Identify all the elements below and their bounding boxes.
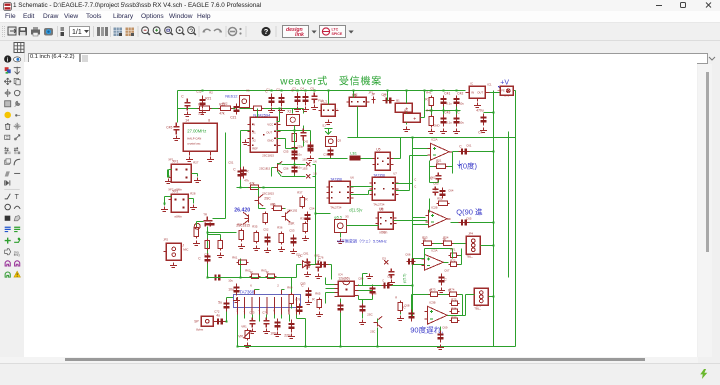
wire y158 row bbox=[318, 157, 375, 159]
svg-text:C67: C67 bbox=[444, 268, 450, 272]
ground bbox=[186, 156, 193, 161]
resistor R36 bbox=[279, 231, 283, 244]
wire rail B vertical bbox=[507, 131, 509, 277]
label d15v bbox=[349, 207, 363, 212]
svg-text:C: C bbox=[181, 94, 184, 98]
svg-text:+V: +V bbox=[500, 79, 509, 86]
label C52 bbox=[263, 227, 269, 231]
svg-text:C69: C69 bbox=[442, 325, 448, 329]
ground bbox=[193, 240, 200, 245]
svg-text:JP5: JP5 bbox=[476, 303, 481, 307]
svg-text:GND: GND bbox=[433, 123, 439, 127]
svg-text:R52: R52 bbox=[437, 196, 443, 200]
label C84 bbox=[358, 276, 364, 280]
wire vert x240 bbox=[240, 130, 249, 187]
label R33 bbox=[270, 202, 276, 206]
capacitor C84 bbox=[369, 285, 375, 295]
resistor R65 bbox=[312, 297, 321, 309]
ground bbox=[388, 279, 395, 284]
transistor Q4 bbox=[254, 194, 271, 206]
svg-text:0.1u: 0.1u bbox=[446, 120, 452, 124]
wire rail C vertical bbox=[514, 93, 516, 346]
ground bbox=[253, 245, 260, 250]
wire rail A vertical bbox=[492, 90, 494, 346]
svg-text:5u: 5u bbox=[218, 300, 222, 304]
svg-text:C: C bbox=[382, 278, 384, 282]
label C85 bbox=[387, 274, 393, 278]
wire opamp1 out bbox=[452, 150, 494, 152]
label 1 bbox=[336, 107, 338, 111]
svg-text:MIC: MIC bbox=[183, 247, 188, 251]
ground bbox=[233, 297, 240, 302]
label IC2B bbox=[431, 205, 437, 209]
wire u14 bbox=[411, 294, 465, 315]
wire xf2 bbox=[188, 198, 193, 203]
label SJ bbox=[322, 123, 326, 127]
svg-text:TA7358: TA7358 bbox=[373, 173, 385, 177]
label B2 bbox=[404, 108, 408, 112]
capacitor C55 bbox=[291, 144, 303, 154]
svg-text:2SC: 2SC bbox=[370, 329, 375, 333]
label U6 bbox=[350, 175, 354, 179]
crystal Q1 bbox=[239, 95, 249, 108]
capacitor C62 bbox=[430, 172, 441, 182]
svg-text:OUT: OUT bbox=[477, 90, 483, 94]
wire opamp1 in bbox=[409, 148, 427, 190]
ground bbox=[278, 246, 285, 251]
svg-text:IC2A: IC2A bbox=[431, 137, 437, 141]
ground bbox=[438, 287, 445, 292]
ground bbox=[161, 206, 168, 211]
wire d2 bbox=[239, 264, 331, 279]
svg-text:TA7358: TA7358 bbox=[330, 177, 342, 181]
filter FL1 bbox=[318, 99, 338, 116]
svg-text:IN: IN bbox=[252, 122, 255, 126]
label 1SS bbox=[302, 166, 307, 170]
label C12 bbox=[196, 89, 202, 93]
svg-text:10u: 10u bbox=[297, 152, 302, 156]
wire dip8 out bbox=[358, 284, 413, 286]
resistor R39 bbox=[240, 166, 249, 178]
supply connector J1 bbox=[497, 86, 513, 95]
svg-text:TBL_: TBL_ bbox=[466, 254, 473, 258]
capacitor C73 bbox=[263, 317, 269, 327]
resistor R71 bbox=[448, 253, 458, 257]
svg-text:R37: R37 bbox=[297, 190, 303, 194]
resistor R35 bbox=[254, 230, 258, 243]
op-amp U13 bbox=[421, 254, 446, 270]
svg-text:NE612: NE612 bbox=[225, 93, 238, 98]
svg-text:JP3: JP3 bbox=[504, 93, 509, 97]
svg-text:C53: C53 bbox=[289, 228, 295, 232]
ground bbox=[199, 109, 206, 114]
capacitor C81 bbox=[300, 253, 310, 269]
svg-text:C38: C38 bbox=[381, 92, 387, 96]
wire to row bbox=[329, 157, 331, 158]
svg-text:C79: C79 bbox=[295, 297, 301, 301]
svg-text:C76: C76 bbox=[318, 255, 324, 259]
node row bbox=[430, 89, 457, 111]
label IC2A bbox=[431, 137, 437, 141]
svg-text:R74: R74 bbox=[449, 287, 455, 291]
ground bbox=[474, 102, 481, 107]
svg-text:R66: R66 bbox=[371, 291, 377, 295]
svg-text:R33: R33 bbox=[270, 202, 276, 206]
jumper circle bbox=[194, 223, 200, 229]
svg-text:OUT: OUT bbox=[266, 130, 272, 134]
svg-text:U7: U7 bbox=[393, 171, 397, 175]
inductor L1 bbox=[349, 150, 360, 160]
label 6 bbox=[250, 283, 252, 287]
label C82 bbox=[314, 253, 320, 257]
label C76 bbox=[318, 255, 324, 259]
svg-text:10u: 10u bbox=[228, 287, 234, 291]
svg-text:C61: C61 bbox=[466, 143, 472, 147]
svg-text:8ohm: 8ohm bbox=[196, 327, 204, 331]
svg-text:X1: X1 bbox=[252, 130, 256, 134]
label C54 bbox=[309, 206, 315, 210]
svg-text:R75: R75 bbox=[451, 297, 457, 301]
label R42 bbox=[426, 108, 432, 112]
label C81 bbox=[303, 251, 309, 255]
label IC3A bbox=[431, 248, 437, 252]
svg-text:R54: R54 bbox=[443, 235, 449, 239]
svg-text:C73: C73 bbox=[249, 310, 255, 314]
label C55 bbox=[283, 149, 289, 153]
svg-text:HALF-CAN: HALF-CAN bbox=[187, 136, 201, 140]
resistor R63 bbox=[265, 270, 276, 278]
capacitor C92 bbox=[403, 305, 414, 321]
svg-text:L$1: L$1 bbox=[350, 150, 357, 155]
capacitor C72 bbox=[249, 317, 255, 327]
wire x412 vert bbox=[411, 136, 413, 190]
svg-text:C21: C21 bbox=[230, 115, 236, 119]
svg-text:47k: 47k bbox=[219, 111, 225, 115]
label R34 bbox=[237, 222, 243, 226]
wire u13 fb bbox=[424, 248, 452, 258]
op-amp IC U2 NJM2594 bbox=[247, 112, 280, 152]
wire dip8 fb bbox=[358, 284, 372, 299]
wire y232 bbox=[207, 231, 236, 233]
label C61 bbox=[466, 143, 472, 147]
label JP3 bbox=[504, 93, 509, 97]
svg-text:7: 7 bbox=[281, 308, 283, 312]
svg-text:6: 6 bbox=[250, 283, 252, 287]
label C68 bbox=[404, 303, 410, 307]
svg-text:R72: R72 bbox=[450, 258, 456, 262]
ground njm pin3 bbox=[242, 139, 249, 144]
label JP5 bbox=[476, 303, 481, 307]
svg-text:IC4: IC4 bbox=[338, 272, 343, 276]
label VR1 bbox=[241, 324, 247, 328]
label IC3B bbox=[429, 300, 435, 304]
svg-text:TR: TR bbox=[203, 212, 207, 216]
ground bbox=[217, 252, 224, 257]
label 1SS bbox=[302, 157, 307, 161]
wire NJM right bbox=[276, 108, 285, 148]
svg-text:+: + bbox=[413, 116, 416, 122]
wire loop rail bbox=[347, 136, 515, 138]
label C71 bbox=[204, 252, 210, 256]
capacitor C76 bbox=[317, 257, 328, 267]
svg-text:PE: PE bbox=[501, 88, 505, 92]
svg-text:X2: X2 bbox=[252, 138, 256, 142]
wire mixer out bbox=[393, 137, 400, 158]
capacitor C57 bbox=[291, 164, 302, 174]
svg-text:U$2: U$2 bbox=[352, 92, 358, 96]
svg-text:xt9Mn: xt9Mn bbox=[174, 214, 182, 218]
capacitor C34 bbox=[302, 92, 308, 105]
wire caps bbox=[431, 106, 456, 114]
wire battery bbox=[405, 89, 407, 124]
capacitor C21 bbox=[230, 103, 239, 119]
capacitor C86 bbox=[381, 278, 391, 288]
op-amp U12 DIP8 bbox=[334, 276, 358, 296]
label C2 bbox=[276, 87, 280, 91]
label U$2 bbox=[352, 92, 358, 96]
svg-text:1SS: 1SS bbox=[302, 166, 307, 170]
mixer U6 TA7358 bbox=[326, 177, 353, 209]
wire q in bbox=[412, 190, 428, 227]
capacitor C44 bbox=[181, 94, 190, 110]
capacitor C45 bbox=[166, 122, 179, 134]
label phase bbox=[402, 274, 406, 284]
svg-text:C52: C52 bbox=[263, 227, 269, 231]
audio amp U11 TA7368 bbox=[233, 289, 300, 314]
svg-text:C54: C54 bbox=[309, 206, 315, 210]
ground bbox=[316, 311, 323, 316]
transistor Q6 bbox=[281, 210, 295, 225]
svg-text:X1: X1 bbox=[246, 88, 250, 92]
svg-text:14: 14 bbox=[185, 118, 189, 122]
label R71 bbox=[450, 247, 456, 251]
svg-text:?: ? bbox=[264, 27, 269, 36]
label C5 bbox=[310, 86, 314, 90]
ground bbox=[278, 107, 285, 112]
capacitor C33 bbox=[291, 88, 300, 105]
crystal Q2 bbox=[286, 109, 299, 125]
svg-text:C65: C65 bbox=[466, 216, 472, 220]
crystal Q8 bbox=[334, 215, 346, 232]
svg-text:R: R bbox=[425, 97, 428, 101]
capacitor C61 bbox=[458, 144, 469, 154]
label C53 bbox=[289, 228, 295, 232]
capacitor C79 bbox=[296, 303, 302, 314]
label C4n bbox=[478, 130, 482, 134]
svg-text:C43: C43 bbox=[444, 110, 450, 114]
svg-text:U8: U8 bbox=[379, 206, 383, 210]
capacitor C71 bbox=[213, 313, 226, 324]
label GND bbox=[433, 123, 439, 127]
capacitor C31 bbox=[265, 89, 274, 106]
wire fb2 bbox=[428, 198, 430, 212]
svg-text:C: C bbox=[414, 184, 416, 188]
svg-text:47k: 47k bbox=[249, 181, 255, 185]
node bbox=[270, 89, 315, 91]
ground bbox=[307, 155, 314, 160]
label R37 bbox=[297, 190, 303, 194]
svg-text:0.1u: 0.1u bbox=[446, 101, 452, 105]
ground bbox=[311, 104, 318, 109]
label C67 bbox=[444, 268, 450, 272]
wire conn4 bbox=[465, 294, 494, 297]
svg-text:IC3B: IC3B bbox=[429, 300, 435, 304]
capacitor C32 bbox=[278, 93, 284, 106]
capacitor C46 bbox=[453, 110, 460, 126]
crystal filter XF2 bbox=[168, 189, 188, 212]
wire opamp2 out bbox=[450, 221, 494, 223]
ground bbox=[190, 204, 197, 209]
svg-text:C62: C62 bbox=[430, 175, 436, 179]
mixer U7 TA7358 bbox=[369, 173, 398, 206]
capacitor C47 470u bbox=[476, 108, 486, 125]
svg-text:R77: R77 bbox=[451, 315, 457, 319]
svg-text:C: C bbox=[457, 110, 460, 114]
svg-text:C81: C81 bbox=[303, 251, 309, 255]
svg-text:I(0度): I(0度) bbox=[458, 160, 477, 170]
label R28 bbox=[190, 191, 196, 195]
wire y108 row bbox=[177, 107, 303, 113]
svg-text:C72: C72 bbox=[214, 309, 220, 313]
svg-text:R61: R61 bbox=[232, 255, 238, 259]
svg-text:XF2: XF2 bbox=[168, 187, 174, 191]
wire q9 bbox=[376, 312, 404, 347]
resistor R32 bbox=[263, 211, 267, 224]
resistor R30 bbox=[218, 238, 222, 250]
wire osc bbox=[258, 187, 285, 208]
svg-text:VR: VR bbox=[238, 334, 243, 338]
label C3 bbox=[292, 86, 296, 90]
label R61 bbox=[232, 255, 238, 259]
svg-text:2SC1815: 2SC1815 bbox=[259, 166, 270, 170]
label 10u bbox=[459, 101, 464, 105]
resistor R72 bbox=[448, 262, 458, 266]
ground bbox=[453, 128, 460, 133]
label D3 bbox=[382, 256, 386, 260]
svg-text:R21: R21 bbox=[205, 96, 211, 100]
capacitor C82 bbox=[315, 260, 321, 271]
label R35 bbox=[252, 224, 258, 228]
label NE612 bbox=[225, 93, 238, 98]
svg-text:R38: R38 bbox=[300, 216, 306, 220]
svg-text:8: 8 bbox=[288, 308, 290, 312]
wire mixer link bbox=[350, 186, 372, 194]
resistor R77 bbox=[449, 318, 459, 322]
resistor R61 bbox=[236, 260, 248, 264]
svg-text:R51: R51 bbox=[436, 158, 442, 162]
label C4 bbox=[300, 86, 304, 90]
label 2SC bbox=[367, 312, 372, 316]
svg-text:X5: X5 bbox=[345, 214, 349, 218]
svg-text:470u: 470u bbox=[476, 108, 484, 112]
battery B2 bbox=[403, 113, 420, 122]
resistor R29 bbox=[194, 225, 198, 238]
svg-text:R34: R34 bbox=[237, 222, 243, 226]
wire NJM out bbox=[276, 130, 310, 143]
label X1 bbox=[246, 88, 250, 92]
svg-text:C63: C63 bbox=[433, 181, 439, 185]
ground bbox=[274, 331, 281, 336]
ground bbox=[165, 178, 172, 183]
svg-text:Q3: Q3 bbox=[337, 138, 341, 142]
potentiometer VR1 bbox=[238, 328, 251, 340]
ground bbox=[288, 333, 295, 338]
capacitor C42b bbox=[303, 139, 313, 153]
svg-text:C5: C5 bbox=[310, 86, 314, 90]
wire q7 bbox=[271, 163, 281, 176]
wire xf1 bbox=[191, 173, 197, 176]
label JP4 bbox=[468, 231, 473, 235]
resistor R30b bbox=[205, 238, 209, 250]
svg-text:erc): erc) bbox=[14, 253, 20, 257]
label XF1 bbox=[168, 157, 174, 161]
resistor R41 bbox=[425, 95, 433, 107]
ground bbox=[304, 271, 311, 276]
svg-text:T: T bbox=[15, 194, 20, 201]
svg-text:R: R bbox=[246, 169, 249, 173]
label C65 bbox=[466, 216, 472, 220]
label xf1b bbox=[174, 187, 182, 191]
svg-text:6: 6 bbox=[273, 308, 275, 312]
connector J4 bbox=[474, 288, 488, 310]
ground bbox=[264, 247, 271, 252]
wire left drop2 bbox=[176, 108, 178, 122]
svg-text:C71: C71 bbox=[204, 252, 210, 256]
capacitor C64 bbox=[432, 186, 438, 195]
svg-text:LTC: LTC bbox=[332, 28, 339, 32]
svg-text:R41: R41 bbox=[426, 90, 432, 94]
svg-text:C83: C83 bbox=[300, 281, 306, 285]
wire y164 bbox=[281, 163, 315, 165]
label 0.1u bbox=[446, 120, 452, 124]
svg-text:crystal osc: crystal osc bbox=[187, 141, 201, 145]
svg-text:C55: C55 bbox=[283, 149, 289, 153]
resistor R73 bbox=[428, 288, 439, 296]
svg-text:C56: C56 bbox=[283, 166, 289, 170]
capacitor C77 bbox=[198, 253, 210, 263]
label R65 bbox=[315, 291, 321, 295]
ground bbox=[249, 328, 256, 333]
connector J3 bbox=[466, 236, 480, 258]
resistor R75 bbox=[449, 301, 459, 305]
label 47k bbox=[244, 178, 249, 182]
wire elco bbox=[483, 111, 494, 113]
wire mid cap rail bbox=[425, 109, 460, 111]
ground bbox=[294, 106, 301, 111]
svg-text:link: link bbox=[295, 32, 305, 38]
label R38 bbox=[300, 216, 306, 220]
resistor R22 bbox=[218, 102, 232, 115]
capacitor C52 bbox=[264, 233, 270, 245]
label R36 bbox=[277, 225, 283, 229]
capacitor C87 bbox=[337, 302, 343, 312]
wire power to rail bbox=[512, 90, 515, 93]
label IC4 bbox=[338, 272, 343, 276]
node top-left bbox=[201, 89, 203, 91]
wire c87 bbox=[339, 298, 341, 347]
ground bbox=[437, 344, 444, 349]
resistor R76 bbox=[449, 309, 459, 313]
label 2SC1815 bbox=[262, 191, 274, 195]
resistor R24 bbox=[251, 106, 263, 110]
wire dip8 left bbox=[325, 277, 334, 303]
label R22 bbox=[222, 101, 228, 105]
wire y213 bbox=[315, 212, 330, 214]
wire bottom rail bbox=[237, 345, 515, 347]
label C72 bbox=[214, 309, 220, 313]
ground bbox=[290, 248, 297, 253]
wire amp pins bbox=[236, 314, 306, 347]
